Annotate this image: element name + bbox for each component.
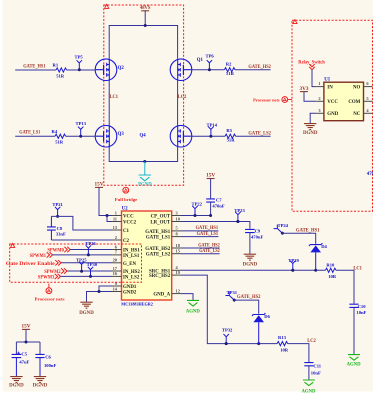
svg-text:GATE_LS2: GATE_LS2 [248,131,271,137]
wire SPWM2 to IN_HS2 [67,270,112,272]
svg-text:C1: C1 [123,229,130,234]
U2 pin 4 SRC_HS1 [149,265,181,274]
test point TP21 [52,202,63,218]
svg-text:VCC: VCC [327,100,338,105]
capacitor C10 10nF [349,304,366,354]
svg-text:12: 12 [176,288,180,293]
diode D4 [309,243,328,270]
svg-text:GATE_LS2: GATE_LS2 [146,253,171,258]
svg-text:GND1: GND1 [123,285,137,290]
test point TP30 [87,262,98,278]
svg-text:G_EN: G_EN [123,262,137,267]
svg-text:R10: R10 [326,262,335,267]
svg-text:TP25: TP25 [76,258,87,263]
svg-text:R2: R2 [226,62,232,67]
svg-text:GATE_LS2: GATE_LS2 [199,248,220,254]
svg-text:DGND: DGND [243,262,258,268]
U2 pin 14 GND2 [112,286,137,295]
U1 pin 1 IN [316,81,333,90]
svg-text:Full bridge: Full bridge [115,197,138,202]
svg-text:DGND: DGND [9,382,24,388]
svg-text:TP6: TP6 [206,53,215,58]
svg-text:51R: 51R [55,140,64,145]
svg-text:GATE_HS2: GATE_HS2 [145,247,170,252]
svg-text:SPWM3: SPWM3 [38,274,55,280]
svg-text:C2: C2 [123,239,130,244]
svg-text:TP13: TP13 [76,121,87,126]
svg-text:Processor nets: Processor nets [253,97,280,102]
wire node LC2 (Q1 source to Q4 drain) [177,80,179,125]
svg-text:15V: 15V [206,173,215,179]
svg-text:SRC_HS2: SRC_HS2 [149,274,171,279]
test point TP29 [288,258,299,272]
svg-text:LR_OUT: LR_OUT [150,221,171,226]
marker Full bridge [115,187,138,202]
test point TP23 [234,208,245,223]
svg-text:MC33883HEGR2: MC33883HEGR2 [121,302,153,307]
svg-text:Processor nets: Processor nets [35,296,65,301]
marker Processor nets (spwm) [35,284,65,302]
svg-text:GATE_LS1: GATE_LS1 [197,231,219,237]
svg-text:U1: U1 [324,78,330,83]
wire R2 to GATE_HS2 label [235,69,271,71]
U1 pin 4 NC [353,108,372,117]
wire Q4 gate to R5 [191,135,225,137]
svg-text:AGND: AGND [186,308,200,314]
svg-text:IN_LS1: IN_LS1 [123,254,140,259]
capacitor C11 10nF [304,363,321,380]
U2 pin 11 VCC2 [112,216,137,225]
port SPWM2 [44,268,67,275]
svg-text:48VS: 48VS [140,5,151,11]
svg-text:100nF: 100nF [44,363,56,368]
svg-text:TP14: TP14 [207,122,218,127]
wire U2 SRC_HS2 down to R13 [181,275,277,345]
svg-text:GND: GND [327,112,338,117]
svg-text:AGND: AGND [302,389,316,395]
svg-text:U2: U2 [122,206,128,211]
svg-text:33nF: 33nF [56,232,66,237]
test point TP13 [76,121,87,138]
wire U2 SRC_HS1 to R10 [181,269,325,272]
wire GATE_HS1 to R1 [15,69,56,71]
svg-text:C5: C5 [21,351,27,356]
power port 15V (C7) [206,173,215,179]
svg-text:LC1: LC1 [353,266,362,271]
wire / net label GATE_HS1 (U2) [181,225,218,231]
svg-text:51R: 51R [226,71,235,76]
svg-text:TP22: TP22 [192,202,203,207]
svg-text:R13: R13 [278,335,287,340]
svg-text:NO: NO [353,86,361,91]
svg-text:470nF: 470nF [251,235,263,240]
wire GND1/GND2 to DGND [87,286,113,302]
svg-text:GATE_LS1: GATE_LS1 [19,129,40,135]
svg-text:TP23: TP23 [234,208,245,213]
U2 pin 3 CP_OUT [151,210,181,219]
svg-text:TP26: TP26 [85,241,96,246]
svg-text:GND2: GND2 [123,291,137,296]
U1 pin 5 COM [348,96,372,105]
ground DGND (relay) [303,113,318,136]
U2 pin 10 LR_OUT [150,216,181,225]
wire / net label GATE_HS2 (U2) [181,242,220,248]
marker Processor nets (relay) [253,97,292,103]
svg-text:470nF: 470nF [212,203,224,208]
wire TP24 GATE_HS1 to D4 [282,233,315,244]
U2 pin 20 G_EN [112,258,137,267]
svg-text:DGND: DGND [33,382,48,388]
wire R10 to C10 [336,270,354,303]
wire SPWM1 to IN_LS1 [53,254,113,256]
U2 pin 19 SRC_HS2 [149,270,181,279]
test point TP25 [76,258,87,273]
wire SPWM0 to IN_HS1 [70,249,112,251]
resistor R5 51R [225,128,236,142]
U2 pin 9 GND1 [112,281,137,290]
port SPWM0 [47,247,70,254]
svg-text:GATE_HS2: GATE_HS2 [237,294,261,300]
U2 pin 12 GND_A [153,288,181,297]
power port 3V3 [300,86,317,102]
svg-text:TP5: TP5 [75,54,84,59]
svg-text:R1: R1 [53,63,59,68]
U1 pin 6 NO [353,81,373,90]
svg-text:GATE_LS1: GATE_LS1 [146,236,171,241]
wire node LC1 (Q2 source to Q3 drain) [108,80,110,125]
svg-text:TP30: TP30 [87,262,98,267]
relay-switch dashed boundary box [292,20,373,212]
svg-text:2: 2 [115,235,117,240]
wire Gate Driver Enable to G_EN [61,262,112,264]
svg-text:1: 1 [115,210,117,215]
U2 pin 16 IN_LS2 [112,271,140,280]
svg-text:SPWM1: SPWM1 [30,253,47,259]
svg-text:IN_LS2: IN_LS2 [123,275,140,280]
U1 pin 3 GND [316,108,338,117]
svg-text:Q1: Q1 [197,58,204,63]
wire / net label GATE_LS2 (U2) [181,248,220,254]
svg-text:D4: D4 [321,244,327,249]
U2 pin 18 GATE_HS2 [145,243,181,252]
full-bridge dashed boundary box [104,4,184,185]
test point TP32 [222,328,233,346]
svg-text:47uF: 47uF [19,360,29,365]
svg-text:R4: R4 [52,129,58,134]
power port 15V (decoupling) [22,324,31,342]
wire C8 to U2 pin C2 [51,239,112,241]
transistor Q2 [95,59,124,81]
op-amp U2 MC33883 gate driver IC body [122,206,172,300]
svg-text:TP29: TP29 [288,258,299,263]
svg-text:DGND: DGND [303,130,318,136]
ground DGND (U2) [79,302,94,316]
svg-text:IN_HS2: IN_HS2 [123,270,140,275]
U2 pin 2 C2 [112,235,130,244]
wire TP21 / C8 to U2 pin C1 [51,216,112,230]
svg-text:10R: 10R [328,274,337,279]
capacitor C7 470nF [206,179,225,216]
op-amp U1 relay driver IC [324,78,364,121]
capacitor C5 47uF [12,351,30,376]
svg-text:11: 11 [113,216,117,221]
svg-text:GATE_HS1: GATE_HS1 [145,230,170,235]
capacitor C6 100nF [35,354,56,376]
svg-text:470n: 470n [367,172,373,177]
test point TP5 [75,54,84,71]
wire 48VS drain rail [109,24,177,59]
svg-text:51R: 51R [227,138,236,143]
svg-text:VCC2: VCC2 [123,221,137,226]
wire SPWM3 to IN_LS2 [61,275,113,277]
svg-text:Q4: Q4 [140,133,147,138]
transistor Q3 [95,125,124,147]
svg-text:DGND: DGND [79,310,94,316]
wire source rail to PGND [109,147,177,163]
svg-text:10R: 10R [280,348,289,353]
svg-text:Q2: Q2 [118,66,125,71]
test point TP22 [192,202,203,217]
resistor R2 51R [224,62,235,76]
test point TP24 [274,223,289,236]
svg-text:R5: R5 [226,128,232,133]
svg-text:IN_HS1: IN_HS1 [123,249,140,254]
U2 pin 1 VCC [112,210,134,219]
svg-text:1: 1 [318,81,320,86]
svg-text:15V: 15V [95,182,104,188]
gate-driver-enable dashed boundary box [10,243,142,282]
test point TP6 [206,53,215,71]
U2 pin 17 IN_HS2 [112,266,140,275]
svg-text:C7: C7 [216,197,222,202]
transistor Q4 [140,125,192,147]
power port 48VS [140,5,151,26]
wire R1 to Q2 gate [67,69,96,71]
svg-text:Gate Driver Enable: Gate Driver Enable [6,261,56,267]
wire / net label GATE_LS1 (U2) [181,231,218,237]
diode D6 [252,313,271,344]
port Relay_Switch [298,59,325,70]
wire 15V to U2 pins 1,11 [99,187,112,221]
svg-text:GND_A: GND_A [153,293,170,298]
resistor R10 10R [325,262,336,279]
U1 pin 2 VCC [316,96,338,105]
svg-text:Q3: Q3 [118,132,125,137]
port Gate Driver Enable [6,260,61,267]
svg-text:PGND: PGND [138,182,152,188]
svg-text:GATE_HS2: GATE_HS2 [248,64,271,70]
svg-text:51R: 51R [56,73,65,78]
wire U2 GND_A to AGND [181,294,193,300]
U2 pin 15 GATE_LS2 [146,249,181,258]
capacitor C9 470nF [245,229,263,254]
U2 pin 13 C1 [112,225,130,234]
svg-text:LC2: LC2 [178,95,187,100]
U2 pin 8 GATE_LS1 [146,231,181,240]
svg-text:LC1: LC1 [110,95,119,100]
svg-text:10nF: 10nF [356,310,366,315]
port SPWM1 [30,252,53,259]
svg-text:GATE_HS1: GATE_HS1 [296,228,320,234]
wire R4 to Q3 gate [66,135,96,137]
resistor R4 51R [52,129,66,145]
svg-text:COM: COM [348,100,360,105]
ground DGND (C5) [9,377,24,389]
capacitor C8 33nF [47,216,66,240]
svg-text:C11: C11 [313,363,321,368]
ground AGND (GND_A) [186,300,200,314]
svg-text:15V: 15V [22,324,31,330]
svg-text:C8: C8 [57,226,63,231]
wire R5 to GATE_LS2 label [236,135,271,137]
wire Q1 gate to R2 [191,69,224,71]
svg-text:TP32: TP32 [222,328,233,333]
svg-text:IN: IN [327,86,333,91]
U2 pin 6 IN_HS1 [112,244,140,253]
wire U2 CP_OUT to C7 [181,214,212,217]
wire U2 LR_OUT to C9 [181,220,250,229]
svg-text:VCC: VCC [123,215,134,220]
wire Relay_Switch to U1 pin1 [312,70,316,87]
svg-text:10nF: 10nF [311,370,321,375]
svg-text:3V3: 3V3 [300,86,309,92]
ground DGND (C9) [243,254,258,267]
wire GATE_LS1 to R4 [15,135,55,137]
resistor R1 51R [53,63,67,79]
svg-text:C9: C9 [255,229,261,234]
transistor Q1 [170,58,203,81]
ground AGND (C11) [302,380,316,395]
svg-text:GATE_HS1: GATE_HS1 [23,63,45,69]
test point TP26 [85,241,96,256]
svg-text:CP_OUT: CP_OUT [151,215,171,220]
ground DGND (C6) [33,377,48,389]
svg-text:2: 2 [318,96,320,101]
svg-text:TP24: TP24 [278,223,289,228]
svg-text:C10: C10 [358,304,367,309]
test point TP31 [225,290,237,303]
power port 15V (U2 VCC) [95,182,104,188]
svg-text:D6: D6 [264,314,270,319]
wire 15V rail to C5/C6 [16,341,40,355]
resistor R13 10R [277,335,289,353]
ground PGND [138,162,152,188]
svg-text:Relay_Switch: Relay_Switch [298,59,325,65]
svg-text:AGND: AGND [347,361,361,367]
ground AGND (C10) [347,355,361,368]
svg-text:TP21: TP21 [52,202,63,207]
test point TP14 [207,122,218,137]
svg-text:NC: NC [353,112,361,117]
port SPWM3 [38,274,61,281]
wire TP31 GATE_HS2 to D6 [234,300,258,314]
svg-text:C6: C6 [45,354,51,359]
wire R13 to C11 [288,344,309,362]
U2 pin 7 IN_LS1 [112,250,140,259]
U2 pin 5 GATE_HS1 [145,226,181,235]
